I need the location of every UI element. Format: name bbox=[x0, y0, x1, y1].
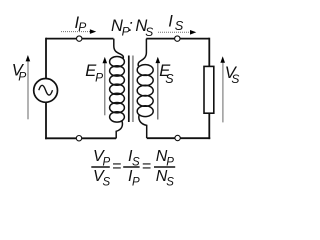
arrow V_P bbox=[26, 55, 31, 119]
svg-text:S: S bbox=[165, 72, 174, 86]
svg-text:P: P bbox=[78, 20, 86, 34]
node bottom-right bbox=[175, 135, 180, 140]
svg-text:=: = bbox=[142, 158, 151, 175]
svg-text::: : bbox=[128, 17, 133, 35]
transformer core bbox=[129, 56, 133, 123]
svg-text:S: S bbox=[175, 18, 184, 33]
secondary winding L2 bbox=[137, 39, 153, 138]
wire bottom-right segment bbox=[147, 137, 211, 139]
wire top-left segment bbox=[46, 38, 114, 40]
wire top-right segment bbox=[146, 38, 209, 40]
wire left vertical upper bbox=[45, 38, 47, 79]
node top-right bbox=[175, 36, 180, 41]
label V_P bbox=[12, 62, 26, 84]
arrow V_S bbox=[220, 56, 225, 122]
label Np : Ns bbox=[111, 17, 153, 39]
label V_S bbox=[225, 64, 240, 86]
load resistor R1 bbox=[204, 66, 214, 113]
node bottom-left bbox=[76, 136, 81, 141]
wire left vertical lower bbox=[45, 102, 47, 139]
arrow E_S bbox=[156, 57, 161, 120]
svg-text:S: S bbox=[103, 177, 111, 189]
arrow E_P bbox=[103, 57, 108, 115]
arrow I_S bbox=[158, 30, 196, 35]
svg-text:P: P bbox=[132, 177, 140, 189]
label E_S bbox=[159, 62, 174, 86]
wire bottom-left segment bbox=[45, 137, 116, 139]
AC source V1 bbox=[34, 79, 58, 103]
svg-text:S: S bbox=[166, 177, 174, 189]
node top-left bbox=[77, 36, 82, 41]
label I_P bbox=[75, 14, 87, 34]
svg-text:S: S bbox=[145, 25, 153, 39]
primary winding L1 bbox=[110, 39, 125, 139]
label E_P bbox=[85, 62, 103, 85]
svg-text:S: S bbox=[231, 72, 239, 86]
arrow I_P bbox=[61, 29, 96, 34]
equation Vp/Vs = Is/Ip = Np/Ns bbox=[91, 148, 175, 189]
svg-text:I: I bbox=[168, 12, 173, 30]
wire right vertical upper bbox=[208, 38, 210, 67]
wire right vertical lower bbox=[208, 113, 210, 139]
svg-text:P: P bbox=[18, 69, 26, 83]
label I_S bbox=[168, 12, 184, 33]
svg-text:=: = bbox=[112, 158, 121, 175]
svg-text:P: P bbox=[95, 71, 103, 85]
